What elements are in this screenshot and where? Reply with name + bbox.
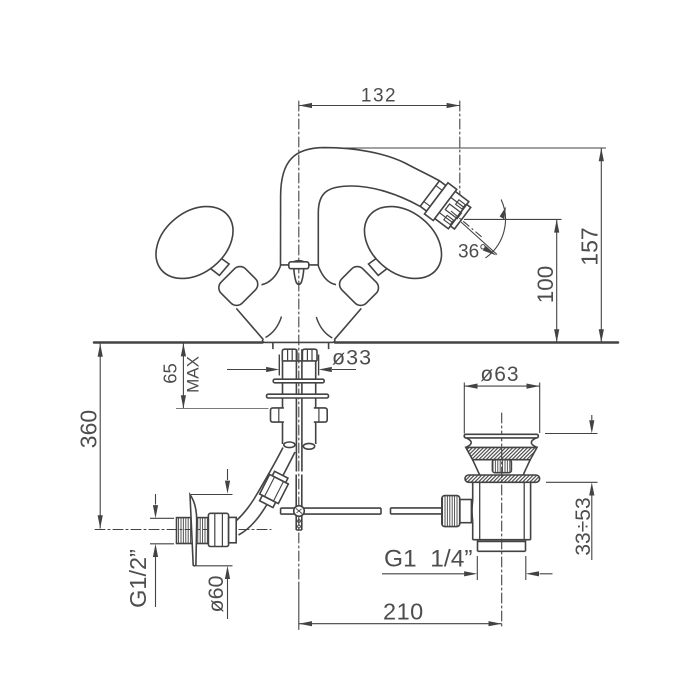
clamp tab left (271, 408, 284, 422)
body cheek curve left (266, 317, 282, 338)
washer 2 (267, 394, 329, 398)
svg-text:157: 157 (577, 227, 603, 265)
rod holes (298, 520, 301, 523)
wire centerline faucet solid extension for 210 (298, 582, 300, 630)
valve escutcheon block left (216, 263, 262, 309)
nut facet lines (288, 349, 312, 361)
dim G114 ext lines (477, 556, 526, 580)
dim o63 line (464, 385, 539, 387)
nut bottom line (282, 360, 317, 362)
pop-up rod break lower (296, 475, 302, 531)
svg-text:210: 210 (383, 599, 424, 625)
svg-text:36°: 36° (458, 242, 487, 263)
dim G114 line left (382, 573, 464, 575)
supply tube end left (284, 442, 295, 448)
drain knurled knob (442, 496, 460, 527)
faucet group (142, 148, 483, 566)
drain knurl box (492, 460, 511, 473)
shank hex nut left (282, 349, 297, 361)
horizontal rod right segment (391, 508, 442, 514)
dim 36 angle leg (461, 222, 497, 255)
handle stem right (369, 254, 393, 275)
dim 65MAX line (182, 343, 184, 408)
flex hose lower edge (239, 452, 296, 535)
clamp tab right (314, 408, 327, 422)
dim o60 bottom arrow (227, 579, 229, 619)
wire mounting surface line left (94, 341, 263, 344)
svg-text:ø33: ø33 (332, 346, 372, 370)
svg-text:ø60: ø60 (204, 575, 228, 612)
dim 36 angle arc (486, 200, 506, 258)
flex hose upper edge (237, 448, 284, 521)
drain group (442, 434, 540, 551)
aerator axis centerline (451, 211, 483, 238)
drain body inner walls (480, 482, 525, 539)
wire centerline drain vertical (501, 413, 503, 629)
svg-text:G1/2”: G1/2” (125, 549, 151, 608)
hose union nut (257, 470, 291, 509)
washer 1 (273, 379, 324, 383)
pop-up knob tee bar (289, 262, 309, 269)
rod joint circle (294, 506, 305, 517)
handle knob right (oval) (350, 192, 455, 294)
dims group (98, 103, 606, 626)
drain tailpiece (478, 540, 526, 552)
supply tube end right (303, 443, 314, 449)
dim o60 ext top (191, 494, 233, 496)
drain knob elbow (471, 501, 474, 522)
dim G12 top arrow (155, 494, 157, 505)
drain seal lower (hatched) (465, 475, 540, 482)
dim 157 extension top (322, 147, 606, 149)
dim o60 top arrow (227, 469, 229, 480)
dim 100 extension top (464, 218, 562, 220)
body flank left (236, 308, 263, 339)
valve collar (229, 517, 237, 542)
handle stem left (205, 254, 229, 275)
dim 65MAX extension (176, 408, 269, 410)
dim o33 leaders (227, 369, 356, 371)
body cheek curve right (316, 317, 332, 338)
shank tube walls (283, 361, 316, 444)
drain body shoulder (473, 540, 531, 542)
spout outer curve (281, 148, 440, 266)
wall nipple threads G1/2 (177, 518, 209, 544)
drain neck left (466, 438, 471, 448)
dim 33-53 line top (591, 415, 593, 420)
dim G12 bottom arrow (155, 557, 157, 607)
horizontal rod left segment (281, 508, 381, 514)
svg-text:G1 1/4”: G1 1/4” (384, 546, 473, 573)
dim 157 line (600, 148, 602, 343)
valve hex nut (208, 513, 228, 546)
dim o60 ext bottom (196, 565, 233, 567)
svg-text:65: 65 (160, 363, 181, 384)
valve escutcheon block right (336, 263, 382, 309)
dim 33-53 ext lines (545, 434, 598, 483)
drain neck right (531, 438, 537, 448)
pop-up rod upper (296, 349, 302, 471)
svg-text:MAX: MAX (184, 356, 203, 393)
dim G114 line right (540, 573, 553, 575)
dim o63 ext lines (464, 383, 539, 434)
drain cone right (523, 460, 530, 475)
drain body walls (473, 482, 531, 539)
wall escutcheon (190, 495, 197, 566)
wire centerline 132 right extension (459, 101, 461, 206)
spout inner curve (318, 186, 420, 266)
handle knob left (oval) (142, 192, 247, 294)
drain knob flange (460, 500, 472, 523)
dim 100 line (556, 219, 558, 342)
wire mounting surface line right (335, 341, 618, 344)
dim G12 ext lines (150, 518, 174, 544)
drain seal upper (hatched) (466, 447, 537, 459)
dim 132 line (299, 105, 460, 107)
dim 360 line (99, 344, 101, 529)
shank hex nut right (302, 349, 317, 361)
drain plug disc (464, 434, 538, 438)
body base flange (262, 340, 335, 343)
svg-text:360: 360 (76, 410, 102, 448)
body flank right (334, 308, 361, 339)
labels group (76, 86, 603, 625)
aerator assembly (418, 178, 474, 234)
base plinth below surface (273, 343, 329, 350)
body fillet right (318, 266, 336, 285)
svg-text:ø63: ø63 (480, 363, 519, 386)
dim 210 line (299, 623, 502, 625)
svg-text:33÷53: 33÷53 (572, 497, 595, 555)
pop-up knob tee bump (294, 261, 305, 262)
body fillet left (262, 266, 281, 285)
body shoulder line (281, 264, 319, 266)
wire centerline faucet vertical (298, 101, 300, 582)
svg-text:132: 132 (361, 86, 397, 107)
pop-up knob stem (294, 269, 304, 285)
wire centerline wall valve horizontal (95, 529, 271, 531)
drain cone left (473, 460, 480, 475)
svg-text:100: 100 (533, 266, 558, 304)
shank sleeve (o33) (279, 355, 318, 376)
dim 33-53 line bottom (591, 496, 593, 561)
